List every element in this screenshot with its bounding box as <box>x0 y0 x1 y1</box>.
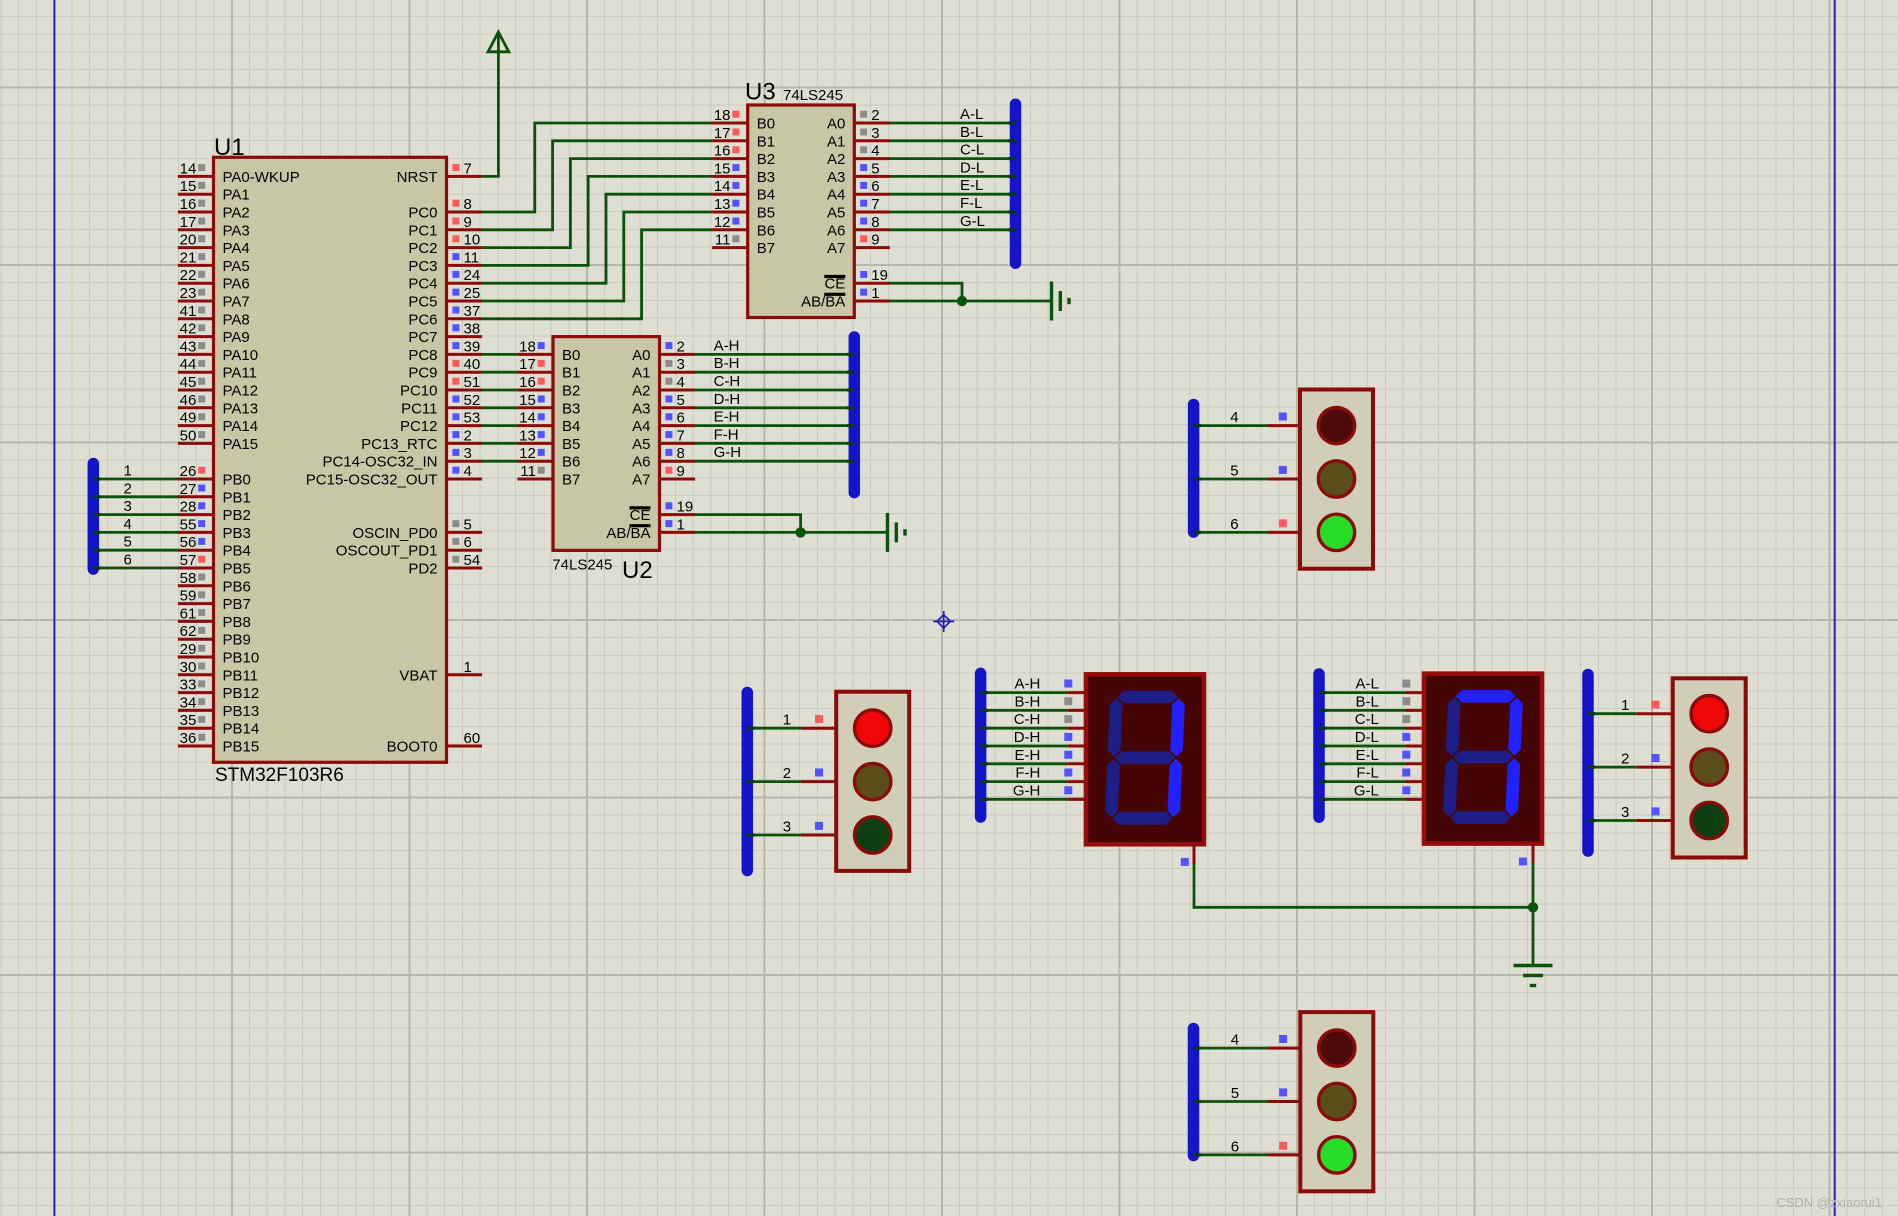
svg-text:C-L: C-L <box>960 142 984 159</box>
svg-text:6: 6 <box>1231 1138 1239 1155</box>
svg-text:6: 6 <box>124 552 132 569</box>
svg-text:7: 7 <box>871 196 879 213</box>
wire U3 CE to AB/BA net <box>889 283 962 301</box>
svg-text:PA0-WKUP: PA0-WKUP <box>223 169 300 186</box>
svg-text:A7: A7 <box>632 472 650 489</box>
U1 pin PA1 (15) <box>178 193 214 196</box>
wire PC12 to U2 B4 <box>482 424 518 427</box>
svg-text:7: 7 <box>464 160 472 177</box>
svg-text:CSDN @zxiaorui1: CSDN @zxiaorui1 <box>1776 1195 1882 1210</box>
svg-text:PC13_RTC: PC13_RTC <box>361 436 438 453</box>
svg-text:B1: B1 <box>562 365 580 382</box>
wire PC4 to U3 B4 <box>482 194 712 283</box>
svg-text:6: 6 <box>871 178 879 195</box>
svg-text:F-L: F-L <box>960 195 983 212</box>
U1 pin OSCOUT_PD1 (6) <box>447 549 483 552</box>
svg-text:74LS245: 74LS245 <box>783 87 843 104</box>
svg-text:16: 16 <box>714 143 731 160</box>
svg-text:B5: B5 <box>757 205 775 222</box>
svg-text:B7: B7 <box>757 240 775 257</box>
svg-text:PC12: PC12 <box>400 418 438 435</box>
U2 pin A4 (6) <box>660 424 696 427</box>
U1 pin PC6 (37) <box>447 317 483 320</box>
svg-text:U3: U3 <box>745 79 776 106</box>
wire TL2 pin 2 <box>1588 766 1636 769</box>
U1 pin PB13 (34) <box>178 709 214 712</box>
svg-text:PB7: PB7 <box>223 596 251 613</box>
svg-text:U1: U1 <box>214 134 245 161</box>
svg-text:2: 2 <box>677 338 685 355</box>
U1 pin PA4 (20) <box>178 246 214 249</box>
svg-text:5: 5 <box>1230 463 1238 480</box>
wire D2 segment C-L <box>1319 727 1406 730</box>
svg-text:B6: B6 <box>562 454 580 471</box>
U1 pin PB7 (59) <box>178 602 214 605</box>
svg-text:10: 10 <box>464 232 481 249</box>
U3 pin B7 (11) <box>712 246 748 249</box>
junction U2 CE/ABBA <box>795 527 805 537</box>
svg-text:6: 6 <box>677 410 685 427</box>
svg-text:16: 16 <box>180 196 197 213</box>
svg-text:PA15: PA15 <box>223 436 259 453</box>
wire PC3 to U3 B3 <box>482 176 712 265</box>
svg-text:B-H: B-H <box>1015 693 1041 710</box>
U3 pin B3 (15) <box>712 175 748 178</box>
traffic light TL1 (red) <box>836 692 909 871</box>
wire D1 segment D-H <box>981 745 1068 748</box>
svg-text:CE: CE <box>824 276 845 293</box>
sheet border line left <box>53 0 55 1216</box>
svg-text:6: 6 <box>1230 516 1238 533</box>
svg-text:F-H: F-H <box>714 426 739 443</box>
U2 pin B5 (13) <box>517 442 553 445</box>
svg-text:13: 13 <box>714 196 731 213</box>
U3 pin B0 (18) <box>712 122 748 125</box>
wire TL2 pin 1 <box>1588 712 1636 715</box>
wire PC9 to U2 B1 <box>482 371 518 374</box>
svg-text:E-L: E-L <box>1356 747 1379 764</box>
svg-text:49: 49 <box>180 410 197 427</box>
svg-text:PC5: PC5 <box>408 294 437 311</box>
7-segment display D1 (digit 1) <box>1086 674 1204 844</box>
svg-text:8: 8 <box>871 214 879 231</box>
U3 pin A2 (4) <box>854 157 890 160</box>
svg-text:AB/BA: AB/BA <box>606 525 650 542</box>
svg-text:PB12: PB12 <box>223 685 260 702</box>
wire junction to ground <box>1532 907 1535 965</box>
wire TL1 pin 1 <box>747 727 801 730</box>
svg-text:PA6: PA6 <box>223 276 250 293</box>
wire D2 segment E-L <box>1319 762 1406 765</box>
svg-text:3: 3 <box>783 819 791 836</box>
U2 pin B7 (11) <box>517 478 553 481</box>
svg-text:20: 20 <box>180 232 197 249</box>
svg-text:A6: A6 <box>632 454 650 471</box>
svg-text:G-H: G-H <box>1013 782 1041 799</box>
U2 pin A2 (4) <box>660 389 696 392</box>
svg-text:PB15: PB15 <box>223 739 260 756</box>
svg-text:2: 2 <box>871 107 879 124</box>
wire PC11 to U2 B3 <box>482 406 518 409</box>
U3 pin B5 (13) <box>712 211 748 214</box>
wire TL3 pin 6 <box>1194 531 1268 534</box>
U1 pin PA6 (22) <box>178 282 214 285</box>
ground (U2 enable) <box>888 513 906 552</box>
U2 pin A1 (3) <box>660 371 696 374</box>
svg-text:11: 11 <box>520 463 536 480</box>
svg-text:59: 59 <box>180 588 197 605</box>
svg-text:14: 14 <box>180 160 197 177</box>
svg-text:A3: A3 <box>827 169 845 186</box>
svg-text:PC6: PC6 <box>408 311 437 328</box>
U2 pin AB/BA (1) <box>660 531 696 534</box>
svg-text:B-H: B-H <box>714 355 740 372</box>
wire U2 A6 to bus <box>695 460 855 463</box>
wire bus to PB5 <box>93 567 178 570</box>
U2 pin A0 (2) <box>660 353 696 356</box>
svg-text:9: 9 <box>677 463 685 480</box>
U1 pin PB4 (56) <box>178 549 214 552</box>
svg-text:54: 54 <box>464 552 481 569</box>
svg-text:37: 37 <box>464 303 481 320</box>
U3 pin AB/BA (1) <box>854 300 890 303</box>
wire D1 segment B-H <box>981 709 1068 712</box>
U1 pin PB0 (26) <box>178 478 214 481</box>
svg-text:58: 58 <box>180 570 197 587</box>
sheet border line right <box>1834 0 1836 1216</box>
svg-text:G-L: G-L <box>960 213 985 230</box>
svg-text:36: 36 <box>180 730 197 747</box>
wire PC2 to U3 B2 <box>482 159 712 248</box>
svg-text:3: 3 <box>871 125 879 142</box>
wire PC10 to U2 B2 <box>482 389 518 392</box>
svg-text:A4: A4 <box>827 187 845 204</box>
U3 pin B2 (16) <box>712 157 748 160</box>
svg-text:PB9: PB9 <box>223 632 251 649</box>
svg-text:25: 25 <box>464 285 481 302</box>
svg-text:C-H: C-H <box>714 373 741 390</box>
wire TL3 pin 5 <box>1194 478 1268 481</box>
wire U3 AB/BA to ground <box>889 300 1051 303</box>
U1 pin PC7 (38) <box>447 335 483 338</box>
svg-text:14: 14 <box>519 410 536 427</box>
svg-text:PA3: PA3 <box>223 222 250 239</box>
wire D1 segment G-H <box>981 798 1068 801</box>
svg-text:A-H: A-H <box>714 337 740 354</box>
svg-text:41: 41 <box>180 303 197 320</box>
U1 pin PC15-OSC32_OUT (4) <box>447 478 483 481</box>
U1 pin PB5 (57) <box>178 567 214 570</box>
wire U3 A3 to bus <box>889 175 1015 178</box>
svg-text:A7: A7 <box>827 240 845 257</box>
svg-text:D-H: D-H <box>714 391 741 408</box>
svg-text:PA9: PA9 <box>223 329 250 346</box>
buffer U3 74LS245 <box>712 79 890 318</box>
buffer U2 74LS245 <box>517 337 695 584</box>
svg-text:B6: B6 <box>757 222 775 239</box>
svg-text:PB14: PB14 <box>223 721 260 738</box>
U1 pin PC10 (51) <box>447 389 483 392</box>
traffic light TL3 (green) <box>1300 390 1373 569</box>
svg-text:17: 17 <box>519 356 536 373</box>
wire TL4 pin 4 <box>1194 1047 1269 1050</box>
wire PC5 to U3 B5 <box>482 212 712 301</box>
svg-text:18: 18 <box>714 107 731 124</box>
U1 pin PC0 (8) <box>447 211 483 214</box>
U1 pin PB15 (36) <box>178 745 214 748</box>
wire PC0 to U3 B0 <box>482 123 712 212</box>
U1 pin PA12 (45) <box>178 389 214 392</box>
svg-text:15: 15 <box>714 160 731 177</box>
wire U3 A6 to bus <box>889 228 1015 231</box>
svg-text:PB6: PB6 <box>223 578 251 595</box>
wire bus to PB0 <box>93 478 178 481</box>
buses overlay <box>88 464 100 570</box>
svg-text:22: 22 <box>180 267 197 284</box>
wire D2 segment G-L <box>1319 798 1406 801</box>
svg-text:42: 42 <box>180 321 197 338</box>
svg-text:E-H: E-H <box>1015 747 1041 764</box>
U3 pin A6 (8) <box>854 228 890 231</box>
svg-text:2: 2 <box>783 765 791 782</box>
svg-text:PB0: PB0 <box>223 472 251 489</box>
7-segment display D2 (digit 7) <box>1424 674 1542 844</box>
svg-text:33: 33 <box>180 677 197 694</box>
svg-text:U2: U2 <box>622 557 653 584</box>
wire PC6 to U3 B6 <box>482 230 712 319</box>
U3 pin A3 (5) <box>854 175 890 178</box>
svg-text:PB1: PB1 <box>223 489 251 506</box>
U2 pin A7 (9) <box>660 478 696 481</box>
svg-text:A1: A1 <box>827 133 845 150</box>
svg-text:A4: A4 <box>632 418 650 435</box>
svg-text:A2: A2 <box>827 151 845 168</box>
wire TL1 pin 3 <box>747 834 801 837</box>
svg-text:A-H: A-H <box>1015 676 1041 693</box>
svg-text:2: 2 <box>1621 751 1629 768</box>
U1 pin PC3 (11) <box>447 264 483 267</box>
wire U3 A1 to bus <box>889 139 1015 142</box>
svg-text:5: 5 <box>1231 1085 1239 1102</box>
wire U3 A2 to bus <box>889 157 1015 160</box>
U1 pin PA9 (42) <box>178 335 214 338</box>
svg-text:15: 15 <box>180 178 197 195</box>
wire PC13 to U2 B5 <box>482 442 518 445</box>
svg-text:A-L: A-L <box>960 106 983 123</box>
svg-text:17: 17 <box>180 214 197 231</box>
wire TL3 pin 4 <box>1194 424 1268 427</box>
svg-text:6: 6 <box>464 534 472 551</box>
svg-text:5: 5 <box>464 516 472 533</box>
wire TL2 pin 3 <box>1588 819 1636 822</box>
svg-text:15: 15 <box>519 392 536 409</box>
svg-text:E-H: E-H <box>714 409 740 426</box>
svg-text:PC4: PC4 <box>408 276 437 293</box>
svg-text:11: 11 <box>715 232 731 249</box>
svg-text:26: 26 <box>180 463 197 480</box>
U1 pin BOOT0 (60) <box>447 745 483 748</box>
svg-text:D-L: D-L <box>1355 729 1379 746</box>
svg-text:B2: B2 <box>562 383 580 400</box>
U1 pin PB14 (35) <box>178 727 214 730</box>
wire D2 segment B-L <box>1319 709 1406 712</box>
svg-text:16: 16 <box>519 374 536 391</box>
svg-text:B2: B2 <box>757 151 775 168</box>
U1 pin PC1 (9) <box>447 228 483 231</box>
wire PC14 to U2 B6 <box>482 460 518 463</box>
svg-text:PB11: PB11 <box>223 667 259 684</box>
traffic light TL2 (red) <box>1673 678 1746 857</box>
svg-text:3: 3 <box>1621 804 1629 821</box>
svg-text:PA11: PA11 <box>223 365 257 382</box>
wire bus to PB1 <box>93 495 178 498</box>
U3 pin B1 (17) <box>712 139 748 142</box>
svg-text:9: 9 <box>871 232 879 249</box>
svg-text:PA7: PA7 <box>223 294 250 311</box>
svg-text:4: 4 <box>464 463 472 480</box>
svg-text:PC3: PC3 <box>408 258 437 275</box>
U2 pin A5 (7) <box>660 442 696 445</box>
svg-text:4: 4 <box>1231 1032 1239 1049</box>
svg-text:PC14-OSC32_IN: PC14-OSC32_IN <box>322 454 437 471</box>
svg-text:1: 1 <box>871 285 879 302</box>
svg-text:PD2: PD2 <box>408 561 437 578</box>
svg-text:61: 61 <box>180 605 197 622</box>
svg-text:7: 7 <box>677 427 685 444</box>
svg-text:A5: A5 <box>827 205 845 222</box>
svg-text:56: 56 <box>180 534 197 551</box>
svg-text:A-L: A-L <box>1356 676 1379 693</box>
U1 pin PA15 (50) <box>178 442 214 445</box>
svg-text:B0: B0 <box>562 347 580 364</box>
svg-text:F-H: F-H <box>1015 765 1040 782</box>
svg-text:PA2: PA2 <box>223 205 250 222</box>
wire bus to PB4 <box>93 549 178 552</box>
svg-text:8: 8 <box>464 196 472 213</box>
svg-text:D-L: D-L <box>960 159 984 176</box>
U3 pin B4 (14) <box>712 193 748 196</box>
U1 pin PB9 (62) <box>178 638 214 641</box>
svg-text:57: 57 <box>180 552 197 569</box>
traffic light TL4 (green) <box>1300 1012 1373 1191</box>
svg-text:BOOT0: BOOT0 <box>387 739 438 756</box>
svg-text:B-L: B-L <box>1356 693 1379 710</box>
svg-text:21: 21 <box>180 249 197 266</box>
U1 pin PC5 (25) <box>447 300 483 303</box>
U1 pin PB6 (58) <box>178 584 214 587</box>
wire U2 A1 to bus <box>695 371 855 374</box>
svg-text:4: 4 <box>677 374 685 391</box>
svg-text:B3: B3 <box>562 400 580 417</box>
svg-text:B4: B4 <box>757 187 775 204</box>
U3 pin A5 (7) <box>854 211 890 214</box>
svg-text:29: 29 <box>180 641 197 658</box>
U1 pin PA14 (49) <box>178 424 214 427</box>
svg-text:C-H: C-H <box>1014 711 1041 728</box>
U1 pin PC8 (39) <box>447 353 483 356</box>
wire TL1 pin 2 <box>747 780 801 783</box>
origin marker <box>933 611 954 632</box>
wire bus to PB2 <box>93 513 178 516</box>
svg-text:30: 30 <box>180 659 197 676</box>
svg-text:E-L: E-L <box>960 177 983 194</box>
svg-text:PA5: PA5 <box>223 258 250 275</box>
svg-text:A3: A3 <box>632 400 650 417</box>
svg-text:3: 3 <box>124 498 132 515</box>
U1 pin PB10 (29) <box>178 656 214 659</box>
svg-text:2: 2 <box>464 427 472 444</box>
U1 pin NRST (7) <box>447 175 483 178</box>
svg-text:12: 12 <box>519 445 536 462</box>
U1 pin PC9 (40) <box>447 371 483 374</box>
svg-text:8: 8 <box>677 445 685 462</box>
svg-text:55: 55 <box>180 516 197 533</box>
svg-text:G-H: G-H <box>714 444 742 461</box>
wire U2 A5 to bus <box>695 442 855 445</box>
svg-text:C-L: C-L <box>1355 711 1379 728</box>
svg-text:B3: B3 <box>757 169 775 186</box>
U1 pin PA7 (23) <box>178 300 214 303</box>
svg-text:PA4: PA4 <box>223 240 250 257</box>
svg-text:44: 44 <box>180 356 197 373</box>
svg-text:OSCIN_PD0: OSCIN_PD0 <box>352 525 437 542</box>
svg-text:51: 51 <box>464 374 481 391</box>
wire U2 A2 to bus <box>695 389 855 392</box>
svg-text:1: 1 <box>1621 697 1629 714</box>
svg-text:VBAT: VBAT <box>399 667 437 684</box>
wire U3 A0 to bus <box>889 122 1015 125</box>
svg-text:5: 5 <box>124 534 132 551</box>
svg-text:4: 4 <box>124 516 132 533</box>
svg-text:PC10: PC10 <box>400 383 438 400</box>
svg-text:PC7: PC7 <box>408 329 437 346</box>
svg-text:CE: CE <box>630 507 651 524</box>
wire U2 A0 to bus <box>695 353 855 356</box>
svg-text:45: 45 <box>180 374 197 391</box>
svg-text:OSCOUT_PD1: OSCOUT_PD1 <box>336 543 438 560</box>
svg-text:PC8: PC8 <box>408 347 437 364</box>
wire U2 A3 to bus <box>695 406 855 409</box>
MCU U1 STM32F103R6 <box>178 134 482 786</box>
U2 pin B0 (18) <box>517 353 553 356</box>
U2 pin B3 (15) <box>517 406 553 409</box>
svg-text:B4: B4 <box>562 418 580 435</box>
svg-text:3: 3 <box>677 356 685 373</box>
U3 pin A7 (9) <box>854 246 890 249</box>
U1 pin PC11 (52) <box>447 406 483 409</box>
U2 pin B6 (12) <box>517 460 553 463</box>
svg-text:62: 62 <box>180 623 197 640</box>
svg-text:1: 1 <box>464 659 472 676</box>
svg-text:34: 34 <box>180 694 197 711</box>
ground (U3 enable) <box>1052 282 1070 321</box>
wire U2 CE to AB/BA net <box>695 515 801 533</box>
svg-text:A5: A5 <box>632 436 650 453</box>
U1 pin PD2 (54) <box>447 567 483 570</box>
wire D1 segment E-H <box>981 762 1068 765</box>
U2 pin B1 (17) <box>517 371 553 374</box>
svg-text:D-H: D-H <box>1014 729 1041 746</box>
svg-text:9: 9 <box>464 214 472 231</box>
svg-text:46: 46 <box>180 392 197 409</box>
svg-text:35: 35 <box>180 712 197 729</box>
svg-text:24: 24 <box>464 267 481 284</box>
wire U3 A5 to bus <box>889 211 1015 214</box>
svg-text:4: 4 <box>1230 409 1238 426</box>
svg-text:1: 1 <box>783 712 791 729</box>
U2 pin A3 (5) <box>660 406 696 409</box>
U1 pin PC4 (24) <box>447 282 483 285</box>
